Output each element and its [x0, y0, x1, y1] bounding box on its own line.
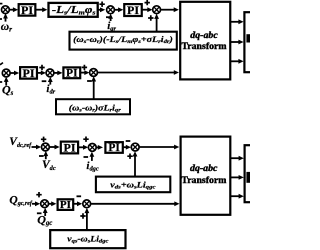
plus sign below-left of J2d	[80, 213, 85, 218]
summing junction J2c	[88, 144, 96, 152]
text fragment in right block 1	[246, 34, 250, 42]
gain block B1 : -Ls/Lm phi_s	[49, 3, 98, 17]
wire J1d to PI D1	[49, 203, 52, 205]
svg-text:-Ls/Lmφs: -Ls/Lmφs	[52, 5, 96, 16]
wire V_dc,ref to J1c	[32, 146, 37, 148]
PI controller C2	[105, 142, 122, 153]
output wire a1	[230, 21, 239, 23]
wire J2d to dq-abc transform 2	[91, 203, 175, 205]
PI controller A2	[124, 4, 142, 16]
svg-text:PI: PI	[21, 3, 33, 17]
wire i_qr feedback up into J2a	[110, 17, 112, 21]
output wire c2	[230, 195, 239, 197]
minus sign fragment at left edge	[0, 18, 2, 20]
compensation block F2	[56, 99, 130, 114]
wire PI B2 to J3b	[80, 72, 85, 74]
wire i_dgc feedback up into J2c	[91, 155, 93, 161]
summing junction J2a	[107, 6, 115, 14]
minus sign below-left of J2c	[84, 156, 89, 158]
wire J2b to PI B2	[54, 72, 58, 74]
svg-text:Transform: Transform	[181, 175, 226, 186]
wire from compensation box F4 up into J2d	[86, 211, 88, 230]
svg-text:PI: PI	[23, 66, 35, 80]
wire J3a to dq-abc transform 1	[161, 9, 175, 11]
PI controller A1	[19, 4, 36, 16]
summing junction J2b	[46, 69, 54, 77]
minus fragment at left edge row 2	[0, 81, 2, 83]
summing junction J3c	[131, 143, 139, 151]
wire from compensation box F2 up into J3b	[93, 80, 95, 100]
wire J2c to PI C2	[96, 146, 99, 148]
plus sign above wire into J2b	[39, 65, 44, 70]
compensation block F4	[50, 230, 125, 248]
svg-text:dq-abc: dq-abc	[190, 30, 218, 41]
wire Q_gc feedback up into J1d	[44, 211, 46, 216]
plus sign below-left of J3a	[148, 15, 153, 20]
dq-abc Transform block 1	[180, 2, 230, 80]
minus sign below J1c	[39, 155, 44, 157]
wire V_dc feedback up into J1c	[45, 154, 47, 159]
plus sign above J1d input	[36, 192, 41, 197]
svg-text:PI: PI	[127, 3, 139, 17]
converter block right 1 (cut off)	[244, 12, 256, 72]
minus sign below J1d	[37, 212, 42, 214]
wire J2a to PI A2	[114, 9, 119, 11]
summing junction J1c	[42, 143, 50, 151]
compensation block F3	[96, 177, 170, 193]
plus sign fragment at left edge	[0, 3, 2, 5]
svg-text:PI: PI	[60, 199, 71, 211]
wire J3b to dq-abc transform 1	[97, 72, 174, 74]
wire PI A2 to J3a	[142, 9, 148, 11]
wire Q_gc,ref to J1d	[32, 203, 36, 205]
text fragment in right block 2	[246, 172, 250, 183]
output wire c1	[230, 60, 239, 62]
svg-text:Transform: Transform	[182, 41, 227, 52]
output wire b1	[230, 41, 239, 43]
plus sign fragment at left edge row 2	[0, 63, 3, 65]
output wire a2	[230, 157, 239, 159]
wire omega_r feedback up into J1a	[5, 17, 7, 22]
summing junction J2d	[83, 200, 91, 208]
wire PI A1 to gain block B1	[35, 9, 43, 11]
PI controller B2	[63, 67, 80, 78]
wire PI B1 to J2b	[37, 72, 42, 74]
minus sign above wire into J3c	[126, 140, 131, 142]
summing junction J1b	[2, 69, 10, 77]
wire Q_s feedback up into J1b	[5, 80, 7, 86]
minus sign below J2a	[106, 16, 111, 18]
wire PI C1 to J2c	[78, 146, 84, 148]
PI controller B1	[20, 67, 37, 79]
svg-text:PI: PI	[66, 68, 78, 80]
wire PI D1 to J2d	[73, 203, 78, 205]
summing junction J3a	[153, 6, 161, 14]
converter block right 2 (cut off)	[245, 145, 257, 202]
dq-abc Transform block 2	[181, 137, 231, 215]
wire i_dr feedback up into J2b	[49, 80, 51, 85]
svg-text:(ωs-ωr)(-Ls/Lmφs+σLridr): (ωs-ωr)(-Ls/Lmφs+σLridr)	[73, 35, 173, 45]
wire J3c to dq-abc transform 2	[139, 146, 175, 148]
summing junction J1a	[2, 6, 10, 14]
wire from compensation box F1 up into J3a	[156, 17, 158, 32]
compensation block F1	[70, 32, 177, 50]
plus sign below-left of J3c	[127, 154, 132, 159]
svg-text:(ωs-ωr)σLriqr: (ωs-ωr)σLriqr	[69, 104, 122, 114]
PI controller D1	[58, 199, 74, 210]
wire from compensation box F3 up into J3c	[134, 154, 136, 176]
plus sign above wire into J2a	[99, 1, 104, 6]
minus sign below-left of J3b	[87, 80, 92, 82]
summing junction J3b	[90, 69, 98, 77]
minus sign above wire into J2d	[77, 195, 82, 197]
minus sign below J2b	[42, 80, 47, 82]
svg-text:dq-abc: dq-abc	[190, 163, 218, 174]
wire J1b to PI B1	[10, 72, 15, 74]
plus sign above wire into J3a	[145, 0, 150, 5]
svg-text:PI: PI	[108, 142, 120, 154]
plus sign above J1c input	[41, 137, 46, 142]
output wire b2	[230, 176, 239, 178]
wire J1c to PI C1	[49, 146, 55, 148]
PI controller C1	[61, 142, 78, 154]
plus sign above wire into J3b	[82, 65, 87, 70]
wire J1a to PI A1	[9, 9, 13, 11]
plus sign above wire into J2c	[83, 137, 88, 142]
wire PI C2 to J3c	[123, 146, 127, 148]
wire B1 to J2a	[98, 9, 102, 11]
svg-text:PI: PI	[64, 140, 76, 154]
summing junction J1d	[41, 200, 49, 208]
